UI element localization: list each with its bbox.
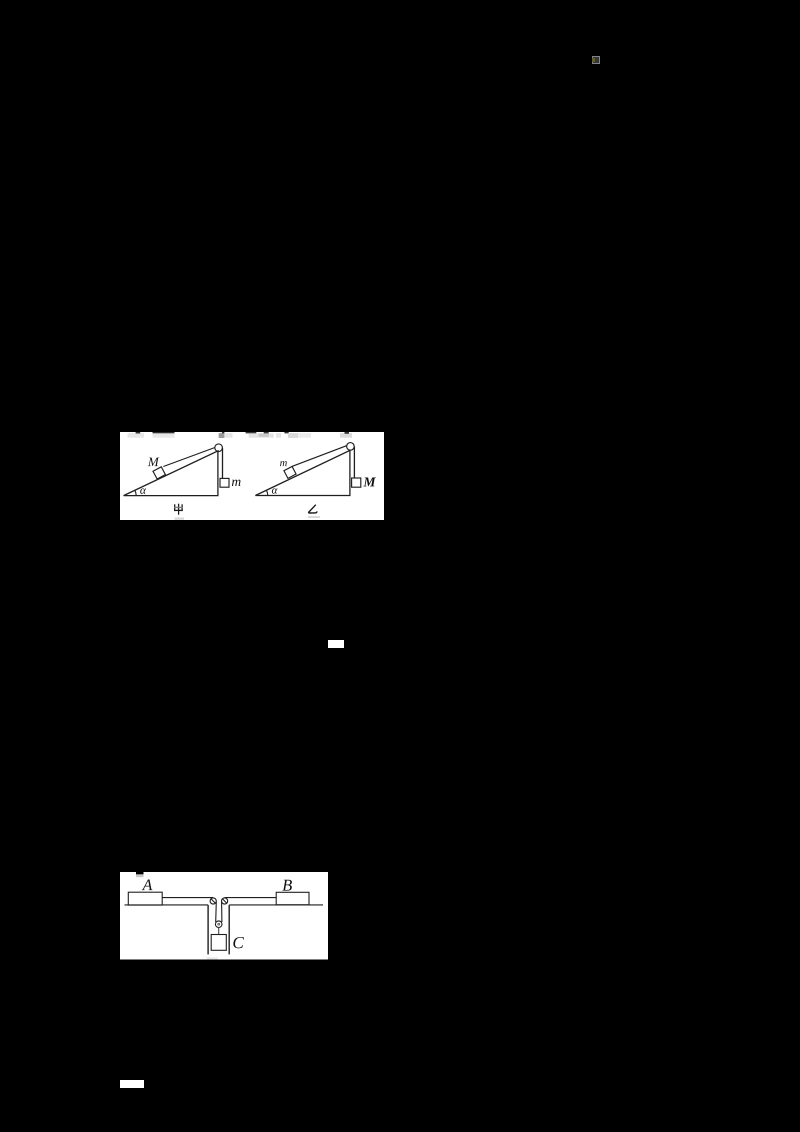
gray dash under yi	[308, 516, 320, 518]
label alpha (left)	[140, 488, 146, 494]
right fixed pulley	[222, 898, 228, 904]
string along incline (left)	[163, 447, 215, 466]
figure 2: blocks A and B on table with hanging block C (white panel)	[120, 872, 328, 960]
right pulley axle slash	[223, 899, 227, 903]
cropped-text notch at top	[136, 872, 144, 874]
right vertical string to movable pulley	[221, 901, 223, 922]
cropped-text smudge strip along top edge	[128, 432, 353, 438]
pulley at incline top (left)	[215, 443, 223, 451]
label A	[142, 880, 153, 891]
left fixed pulley	[210, 898, 216, 904]
caption glyph jia (trident)	[174, 503, 183, 514]
hanging block m (left)	[220, 478, 229, 487]
status icon olive mark	[592, 58, 594, 63]
gray smudge under notch	[136, 874, 144, 877]
white panel background	[120, 872, 328, 960]
block B	[276, 892, 309, 905]
faint smudge at bottom edge	[207, 957, 218, 959]
figure 1: two incline diagrams (white panel)	[120, 432, 384, 520]
vertical string to hanging block (right)	[353, 446, 355, 477]
table surface left segment	[125, 904, 209, 906]
hook link to block C	[218, 928, 220, 935]
label m on incline (right)	[280, 461, 287, 466]
label M hanging (right)	[363, 477, 376, 486]
block C	[211, 935, 226, 951]
string from A to left pulley	[162, 897, 213, 899]
label alpha (right)	[272, 488, 278, 493]
white panel background	[120, 432, 384, 520]
block A	[128, 892, 162, 905]
table surface right segment	[229, 904, 323, 906]
string from right pulley to B	[225, 897, 277, 899]
label B	[282, 880, 292, 891]
block m on incline (right)	[284, 466, 296, 478]
left vertical string to movable pulley	[215, 901, 218, 922]
movable pulley	[215, 921, 222, 928]
angle arc alpha (right)	[266, 490, 268, 496]
movable pulley axle dot	[218, 923, 220, 925]
white redaction rect bottom left	[120, 1080, 144, 1088]
block M on incline (left)	[153, 466, 165, 478]
label C	[233, 937, 244, 948]
left wall of gap	[207, 905, 209, 955]
hanging block M (right)	[352, 478, 361, 487]
string along incline (right)	[292, 445, 347, 466]
incline triangle (left diagram)	[124, 450, 218, 495]
incline triangle (right diagram)	[255, 450, 350, 495]
vertical string to hanging block (left)	[222, 447, 224, 478]
label M (left)	[148, 457, 160, 466]
caption glyph yi (angle stroke)	[309, 504, 317, 512]
label m hanging (left)	[232, 479, 241, 485]
small status icon top right	[592, 56, 600, 64]
pulley at incline top (right)	[347, 442, 355, 450]
white redaction rect mid page	[328, 640, 344, 648]
angle arc alpha (left)	[135, 490, 136, 496]
left pulley axle slash	[211, 899, 215, 903]
gray dash under jia	[175, 517, 185, 519]
right wall of gap	[228, 905, 230, 955]
